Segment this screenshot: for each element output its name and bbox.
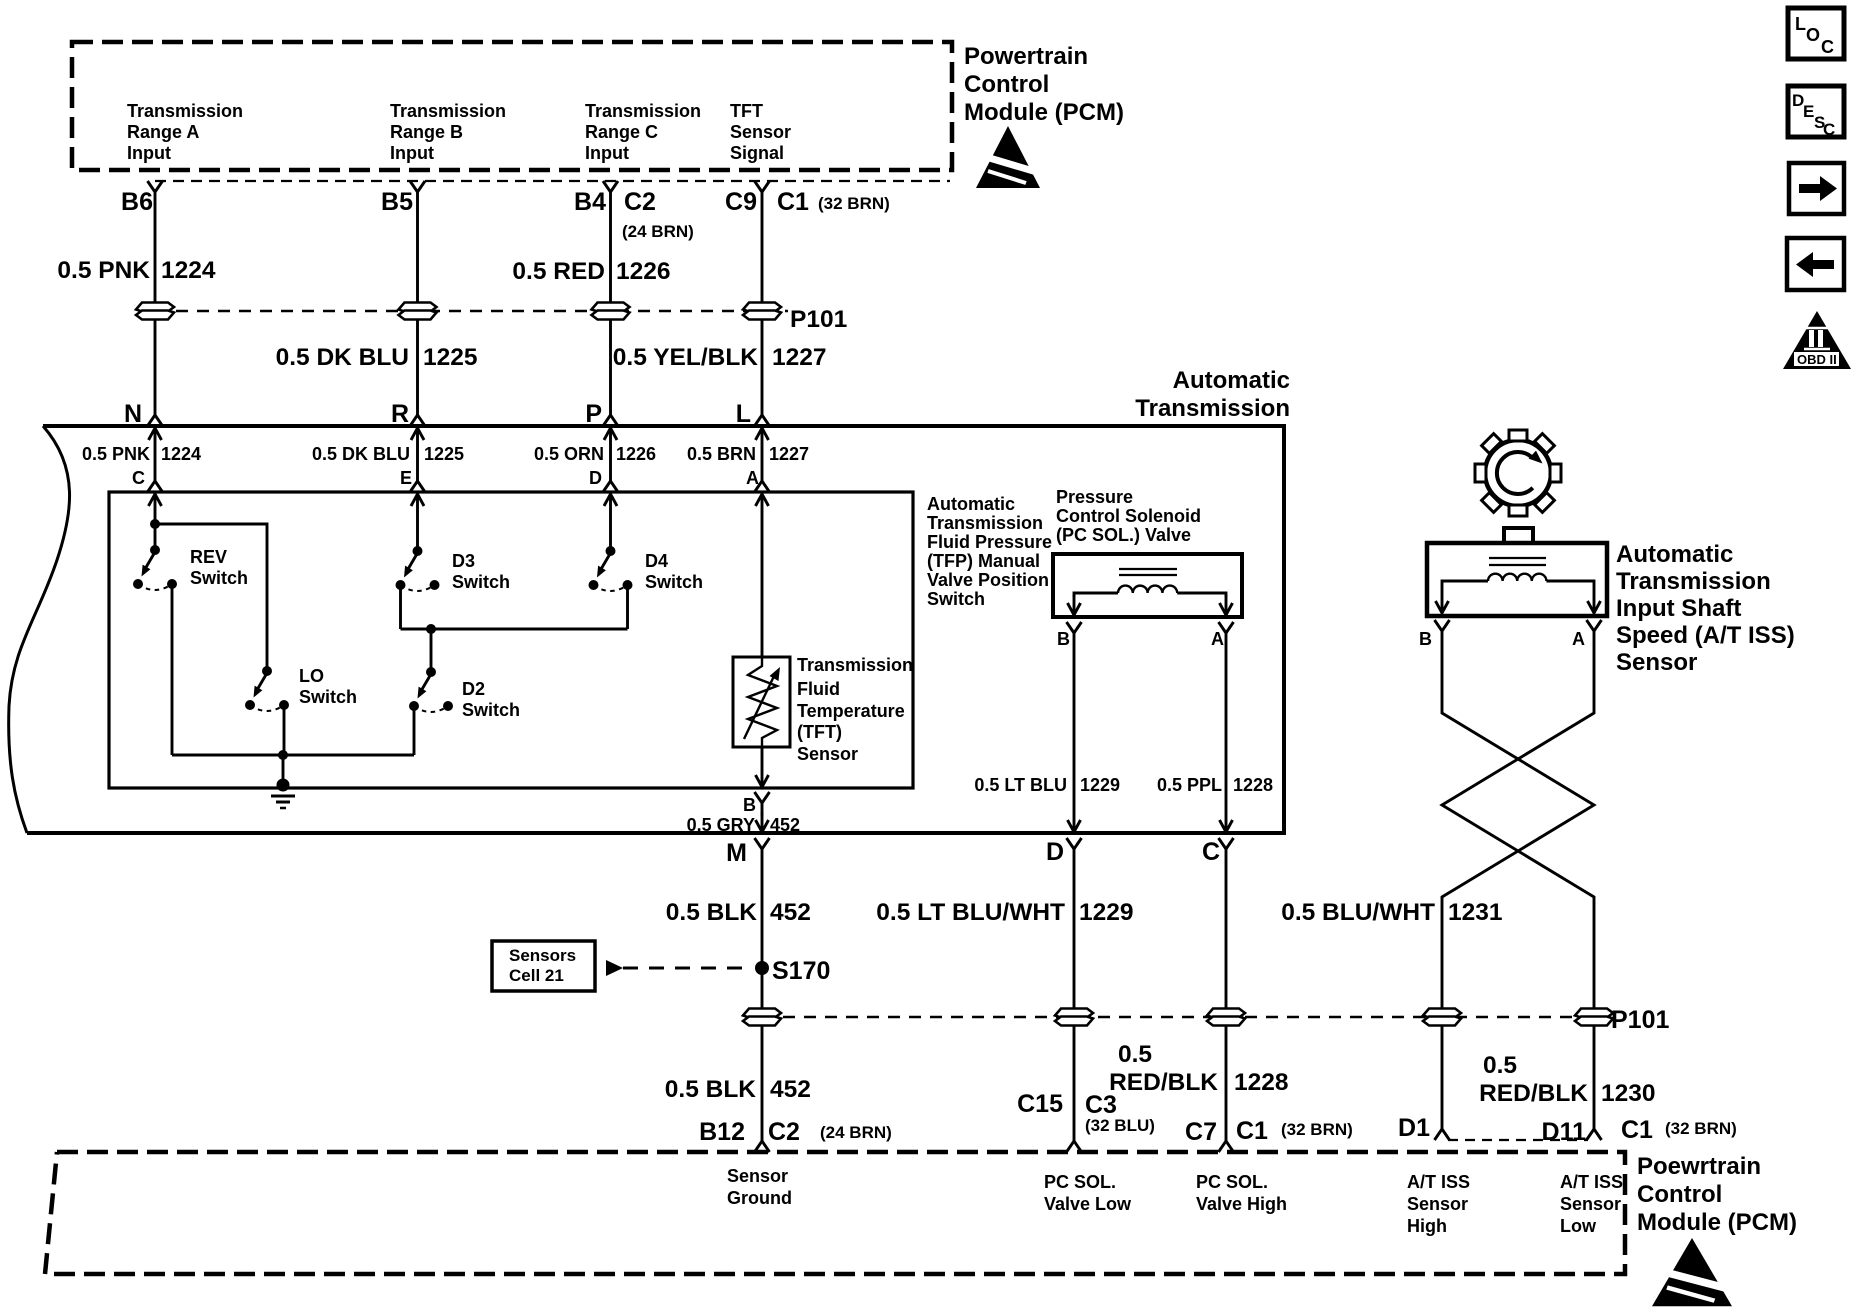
svg-text:D3: D3 — [452, 551, 475, 571]
D3 switch — [396, 546, 440, 591]
svg-text:C1: C1 — [1236, 1117, 1268, 1145]
svg-text:Sensors: Sensors — [509, 946, 576, 965]
svg-text:A: A — [746, 468, 759, 488]
svg-text:C2: C2 — [768, 1118, 800, 1146]
wire D to C15 — [1073, 862, 1076, 1128]
pin B5 fork — [410, 181, 425, 205]
svg-text:452: 452 — [770, 815, 800, 835]
ISS leads — [1442, 581, 1488, 593]
svg-text:D: D — [1046, 838, 1064, 866]
svg-text:Transmission: Transmission — [1616, 568, 1771, 595]
svg-text:Switch: Switch — [452, 572, 510, 592]
inline connector on ISS low wire — [1575, 1009, 1613, 1026]
svg-text:Range B: Range B — [390, 122, 463, 142]
wire LO to common — [283, 705, 286, 755]
svg-text:1227: 1227 — [769, 444, 809, 464]
svg-text:L: L — [1795, 14, 1806, 34]
pin E fork and arrow — [410, 468, 425, 492]
wire C to REV switch — [154, 514, 157, 546]
inline connector on wire C9 — [743, 303, 781, 320]
inline connector on PC SOL high wire — [1207, 1009, 1245, 1026]
svg-text:1227: 1227 — [772, 344, 827, 371]
svg-text:O: O — [1806, 25, 1820, 45]
wire A to TFT sensor — [761, 514, 764, 657]
svg-text:Transmission: Transmission — [585, 101, 701, 121]
wire PC SOL B down — [1073, 646, 1076, 812]
svg-text:0.5 ORN: 0.5 ORN — [534, 444, 604, 464]
svg-text:P: P — [585, 400, 602, 428]
svg-text:Control Solenoid: Control Solenoid — [1056, 506, 1201, 526]
svg-text:Automatic: Automatic — [1173, 367, 1290, 394]
svg-text:1224: 1224 — [161, 444, 201, 464]
connector row P101 dashed line — [155, 310, 788, 312]
wire sensor ground to B12 — [761, 1026, 764, 1128]
wire C to C7 — [1225, 862, 1228, 1128]
svg-text:Transmission: Transmission — [927, 513, 1043, 533]
svg-text:Poewrtrain: Poewrtrain — [1637, 1153, 1761, 1180]
svg-text:RED/BLK: RED/BLK — [1479, 1080, 1588, 1107]
svg-text:A/T ISS: A/T ISS — [1560, 1172, 1623, 1192]
svg-text:D: D — [589, 468, 602, 488]
wire PC SOL A down — [1225, 646, 1228, 812]
svg-text:C1: C1 — [777, 188, 809, 216]
pin N fork and arrow — [148, 402, 163, 426]
svg-text:Switch: Switch — [190, 568, 248, 588]
svg-text:B6: B6 — [121, 188, 153, 216]
svg-text:Range A: Range A — [127, 122, 199, 142]
svg-text:Signal: Signal — [730, 143, 784, 163]
pin D11 / C1 fork — [1587, 1116, 1602, 1140]
svg-text:Transmission: Transmission — [127, 101, 243, 121]
ground symbol — [277, 779, 290, 792]
svg-text:Input Shaft: Input Shaft — [1616, 595, 1741, 622]
svg-text:Transmission: Transmission — [797, 655, 913, 675]
svg-text:B12: B12 — [699, 1118, 745, 1146]
svg-text:C15: C15 — [1017, 1090, 1063, 1118]
svg-text:M: M — [726, 839, 747, 867]
svg-text:Pressure: Pressure — [1056, 487, 1133, 507]
OBD II warning triangle — [1783, 311, 1851, 369]
svg-text:C1: C1 — [1621, 1116, 1653, 1144]
wire R to E — [416, 448, 419, 468]
pin P fork and arrow — [603, 402, 618, 426]
wire REV to common — [171, 584, 174, 755]
callout dashed line with arrow — [606, 960, 623, 976]
wire D3 left contact down — [399, 585, 402, 629]
svg-text:Automatic: Automatic — [1616, 541, 1733, 568]
svg-text:Switch: Switch — [299, 687, 357, 707]
svg-text:(TFP) Manual: (TFP) Manual — [927, 551, 1040, 571]
PCM bottom dashed box — [45, 1152, 1625, 1274]
svg-text:PC SOL.: PC SOL. — [1196, 1172, 1268, 1192]
node common junction — [278, 750, 288, 760]
svg-text:OBD II: OBD II — [1797, 352, 1837, 367]
svg-text:PC SOL.: PC SOL. — [1044, 1172, 1116, 1192]
svg-text:C2: C2 — [624, 188, 656, 216]
svg-text:B: B — [1057, 629, 1070, 649]
D4 switch — [589, 546, 633, 591]
svg-text:LO: LO — [299, 666, 324, 686]
wire P to D — [609, 448, 612, 468]
pin B arrow and fork — [756, 767, 769, 787]
pin L fork and arrow — [755, 402, 770, 426]
svg-text:452: 452 — [770, 899, 811, 926]
node D2 feed junction — [426, 624, 436, 634]
svg-text:Powertrain: Powertrain — [964, 43, 1088, 70]
svg-text:B4: B4 — [574, 188, 606, 216]
svg-text:Sensor: Sensor — [727, 1166, 788, 1186]
svg-text:C: C — [132, 468, 145, 488]
TFT thermistor element — [748, 657, 777, 747]
wire P to D4 switch — [609, 514, 612, 547]
DESC button — [1788, 86, 1844, 139]
svg-text:1225: 1225 — [423, 344, 478, 371]
wire D3 to D4 run — [401, 628, 628, 631]
wire to D1 — [1441, 1026, 1444, 1116]
inline connector on wire B6 — [136, 303, 174, 320]
svg-text:D11: D11 — [1542, 1118, 1587, 1146]
svg-text:Cell 21: Cell 21 — [509, 966, 564, 985]
wire common run — [172, 754, 414, 757]
svg-text:(24 BRN): (24 BRN) — [622, 222, 694, 241]
svg-text:0.5 GRY: 0.5 GRY — [687, 815, 755, 835]
svg-text:A: A — [1572, 629, 1585, 649]
pin M arrow and fork — [756, 812, 769, 832]
svg-text:(32 BLU): (32 BLU) — [1085, 1116, 1155, 1135]
svg-text:Input: Input — [127, 143, 171, 163]
inline connector on PC SOL low wire — [1055, 1009, 1093, 1026]
wire N to C — [154, 448, 157, 468]
svg-text:Fluid Pressure: Fluid Pressure — [927, 532, 1052, 552]
svg-text:B5: B5 — [381, 188, 413, 216]
svg-text:C: C — [1202, 838, 1220, 866]
svg-text:C9: C9 — [725, 188, 757, 216]
svg-text:0.5 DK BLU: 0.5 DK BLU — [276, 344, 409, 371]
svg-text:0.5 RED: 0.5 RED — [512, 258, 605, 285]
svg-text:(32 BRN): (32 BRN) — [818, 194, 890, 213]
svg-text:D4: D4 — [645, 551, 668, 571]
ISS sensor box — [1427, 543, 1607, 616]
LO switch — [245, 666, 289, 711]
svg-text:A: A — [1211, 629, 1224, 649]
svg-text:L: L — [736, 400, 751, 428]
PC SOL leads — [1074, 593, 1118, 597]
wire ISS A twisted pair — [1442, 644, 1594, 1010]
ISS sensor mounting tab — [1504, 528, 1533, 543]
svg-text:P101: P101 — [790, 306, 847, 333]
svg-text:(32 BRN): (32 BRN) — [1281, 1120, 1353, 1139]
PC SOL valve box — [1053, 554, 1242, 617]
svg-text:D1: D1 — [1398, 1114, 1430, 1142]
TFT sensor box — [733, 657, 790, 747]
svg-text:1231: 1231 — [1448, 899, 1503, 926]
pin C9 / C1 fork — [755, 181, 770, 205]
wire B6 to N — [154, 205, 157, 402]
svg-text:Control: Control — [1637, 1181, 1722, 1208]
svg-text:Switch: Switch — [462, 700, 520, 720]
wire L to A — [761, 448, 764, 468]
TFP switch inner box — [109, 492, 913, 788]
svg-text:RED/BLK: RED/BLK — [1109, 1069, 1218, 1096]
svg-text:1228: 1228 — [1234, 1069, 1289, 1096]
svg-text:452: 452 — [770, 1076, 811, 1103]
svg-text:Control: Control — [964, 71, 1049, 98]
svg-text:Low: Low — [1560, 1216, 1597, 1236]
Sensors Cell 21 callout box — [492, 941, 595, 991]
svg-text:Transmission: Transmission — [1135, 395, 1290, 422]
svg-text:REV: REV — [190, 547, 227, 567]
svg-text:Sensor: Sensor — [797, 744, 858, 764]
wire to D11 — [1593, 1026, 1596, 1116]
svg-text:Sensor: Sensor — [1616, 649, 1697, 676]
svg-text:0.5 LT BLU: 0.5 LT BLU — [974, 775, 1067, 795]
svg-text:0.5 BRN: 0.5 BRN — [687, 444, 756, 464]
svg-text:P101: P101 — [1611, 1006, 1669, 1034]
forward arrow button — [1789, 163, 1844, 214]
pin A fork of PC SOL — [1219, 622, 1234, 646]
pin B4 / C2 fork — [603, 181, 618, 205]
inline connector on sensor ground wire — [743, 1009, 781, 1026]
svg-text:R: R — [391, 400, 409, 428]
REV switch — [133, 545, 177, 590]
LOC button — [1788, 8, 1844, 59]
svg-text:Automatic: Automatic — [927, 494, 1015, 514]
svg-text:Speed (A/T ISS): Speed (A/T ISS) — [1616, 622, 1795, 649]
svg-text:(PC SOL.) Valve: (PC SOL.) Valve — [1056, 525, 1191, 545]
svg-text:0.5: 0.5 — [1118, 1041, 1152, 1068]
svg-text:0.5 BLK: 0.5 BLK — [665, 1076, 757, 1103]
svg-text:Switch: Switch — [645, 572, 703, 592]
svg-text:Valve Position: Valve Position — [927, 570, 1049, 590]
wire E to D3 switch — [416, 514, 419, 547]
svg-text:1225: 1225 — [424, 444, 464, 464]
svg-text:B: B — [743, 795, 756, 815]
pin C15 / C3 fork — [1067, 1128, 1082, 1152]
svg-text:Valve Low: Valve Low — [1044, 1194, 1132, 1214]
svg-text:0.5 PNK: 0.5 PNK — [57, 257, 150, 284]
pin B12 / C2 fork — [755, 1128, 770, 1152]
svg-text:Module (PCM): Module (PCM) — [964, 99, 1124, 126]
svg-text:1229: 1229 — [1080, 775, 1120, 795]
svg-text:Input: Input — [585, 143, 629, 163]
svg-text:C: C — [1823, 120, 1835, 139]
svg-text:High: High — [1407, 1216, 1447, 1236]
pin R fork and arrow — [410, 402, 425, 426]
pin A fork and arrow — [755, 468, 770, 492]
inline connector on wire B4 — [592, 303, 630, 320]
svg-text:C7: C7 — [1185, 1118, 1217, 1146]
svg-text:0.5: 0.5 — [1483, 1052, 1517, 1079]
ESD symbol top — [976, 126, 1040, 188]
wire D2 left contact down — [413, 706, 416, 755]
svg-text:0.5 PNK: 0.5 PNK — [82, 444, 150, 464]
wire TFT to pin B — [761, 747, 764, 767]
pin C arrow and fork — [1220, 812, 1233, 832]
Automatic Transmission box outline — [27, 426, 1284, 833]
pin D fork and arrow — [603, 468, 618, 492]
inline connector on wire B5 — [399, 303, 437, 320]
splice S170 — [755, 961, 769, 975]
svg-text:Sensor: Sensor — [1560, 1194, 1621, 1214]
svg-text:0.5 DK BLU: 0.5 DK BLU — [312, 444, 410, 464]
wire ISS B twisted pair — [1442, 644, 1594, 1010]
ESD symbol bottom — [1652, 1238, 1732, 1306]
svg-text:S170: S170 — [772, 957, 830, 985]
svg-text:0.5 LT BLU/WHT: 0.5 LT BLU/WHT — [876, 899, 1065, 926]
wire junction to D2 — [430, 629, 433, 668]
svg-text:(24 BRN): (24 BRN) — [820, 1123, 892, 1142]
svg-text:N: N — [124, 400, 142, 428]
svg-text:1226: 1226 — [616, 258, 671, 285]
svg-text:TFT: TFT — [730, 101, 763, 121]
wire B5 to R — [416, 205, 419, 402]
svg-text:0.5 YEL/BLK: 0.5 YEL/BLK — [613, 344, 759, 371]
wire common to ground — [282, 755, 285, 783]
svg-text:B: B — [1419, 629, 1432, 649]
svg-text:1226: 1226 — [616, 444, 656, 464]
svg-text:Input: Input — [390, 143, 434, 163]
svg-text:C3: C3 — [1085, 1091, 1117, 1119]
wire M to S170 — [761, 862, 764, 1010]
connector face dashed line D1-D11 — [1448, 1139, 1588, 1141]
svg-text:0.5 BLK: 0.5 BLK — [666, 899, 758, 926]
inline connector on ISS high wire — [1423, 1009, 1461, 1026]
svg-text:Transmission: Transmission — [390, 101, 506, 121]
svg-text:Fluid: Fluid — [797, 679, 840, 699]
svg-text:Valve High: Valve High — [1196, 1194, 1287, 1214]
ISS coil — [1488, 574, 1546, 581]
wire C1 to L — [761, 205, 764, 402]
svg-text:Module (PCM): Module (PCM) — [1637, 1209, 1797, 1236]
back arrow button — [1787, 238, 1844, 290]
svg-text:A/T ISS: A/T ISS — [1407, 1172, 1470, 1192]
svg-text:Sensor: Sensor — [730, 122, 791, 142]
svg-text:C: C — [1821, 37, 1834, 57]
svg-text:E: E — [1803, 102, 1814, 121]
svg-text:E: E — [400, 468, 412, 488]
wire D4 right contact down — [626, 585, 629, 629]
svg-text:0.5 BLU/WHT: 0.5 BLU/WHT — [1281, 899, 1435, 926]
pin C7 / C1 fork — [1219, 1128, 1234, 1152]
PCM top dashed box — [72, 42, 952, 170]
svg-text:Range C: Range C — [585, 122, 658, 142]
pin D1 fork — [1435, 1116, 1450, 1140]
wire B4 to P — [609, 205, 612, 402]
svg-text:Switch: Switch — [927, 589, 985, 609]
D2 switch — [409, 667, 453, 712]
svg-text:Ground: Ground — [727, 1188, 792, 1208]
connector face dashed line top — [155, 180, 950, 182]
svg-text:(TFT): (TFT) — [797, 722, 842, 742]
pin B6 fork — [148, 181, 163, 205]
svg-text:Temperature: Temperature — [797, 701, 905, 721]
wire C junction to LO feed — [155, 524, 267, 667]
pin B fork of PC SOL — [1067, 622, 1082, 646]
pin C fork and arrow — [148, 468, 163, 492]
svg-text:1229: 1229 — [1079, 899, 1134, 926]
connector row P101 dashed line bottom — [762, 1016, 1608, 1018]
svg-text:(32 BRN): (32 BRN) — [1665, 1119, 1737, 1138]
pin A fork of ISS — [1587, 620, 1602, 644]
svg-text:1224: 1224 — [161, 257, 216, 284]
svg-text:1228: 1228 — [1233, 775, 1273, 795]
svg-text:0.5 PPL: 0.5 PPL — [1157, 775, 1222, 795]
svg-text:Sensor: Sensor — [1407, 1194, 1468, 1214]
node junction C feed — [150, 519, 160, 529]
PC SOL core lines — [1119, 568, 1177, 570]
gear icon — [1475, 430, 1561, 516]
ISS core lines — [1489, 557, 1546, 559]
svg-text:1230: 1230 — [1601, 1080, 1656, 1107]
svg-text:D2: D2 — [462, 679, 485, 699]
PC SOL coil — [1118, 586, 1177, 593]
pin B fork of ISS — [1435, 620, 1450, 644]
pin D arrow and fork — [1068, 812, 1081, 832]
